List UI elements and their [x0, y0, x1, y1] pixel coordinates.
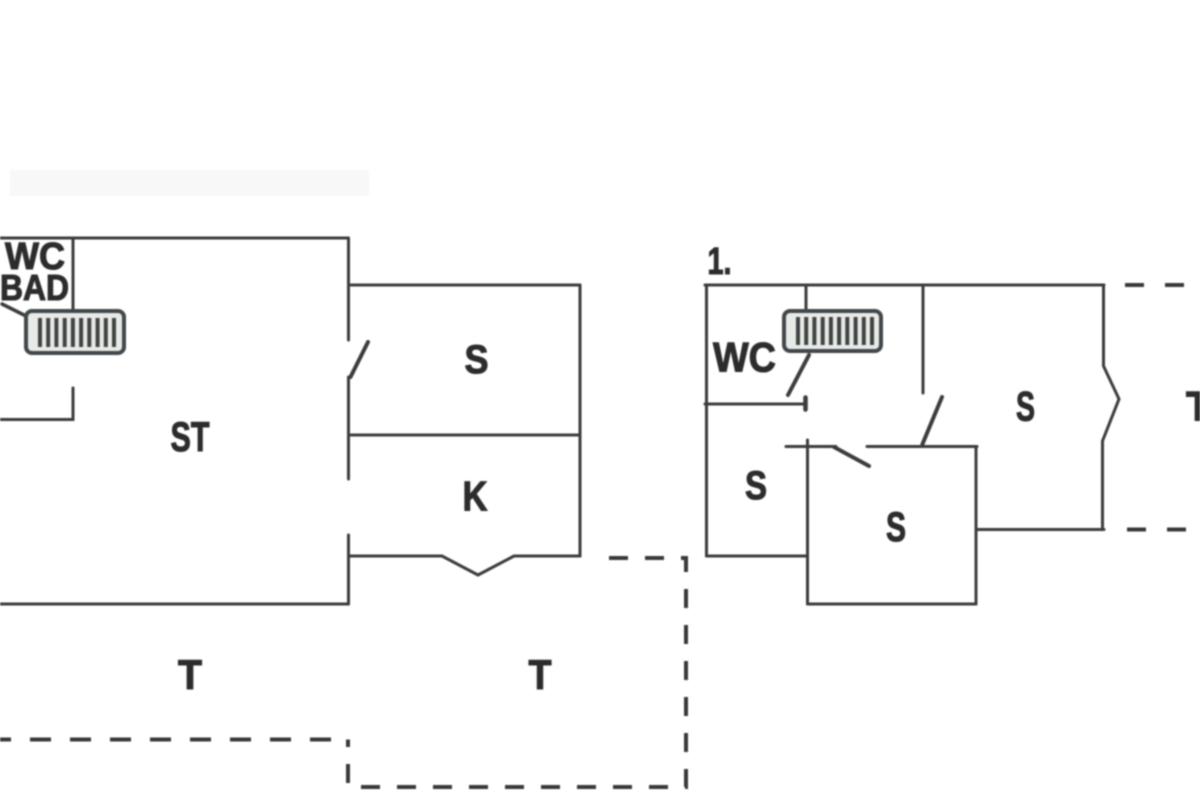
svg-text:S: S	[1016, 383, 1035, 430]
svg-text:K: K	[463, 473, 488, 520]
svg-text:WC: WC	[713, 334, 776, 381]
svg-text:T: T	[178, 651, 202, 698]
svg-text:S: S	[465, 338, 489, 382]
svg-text:S: S	[745, 464, 767, 508]
svg-text:T: T	[1186, 383, 1200, 430]
svg-text:1.: 1.	[708, 241, 732, 283]
svg-text:S: S	[886, 503, 906, 550]
svg-text:ST: ST	[171, 413, 210, 460]
svg-text:T: T	[529, 651, 552, 698]
svg-text:BAD: BAD	[0, 267, 69, 308]
